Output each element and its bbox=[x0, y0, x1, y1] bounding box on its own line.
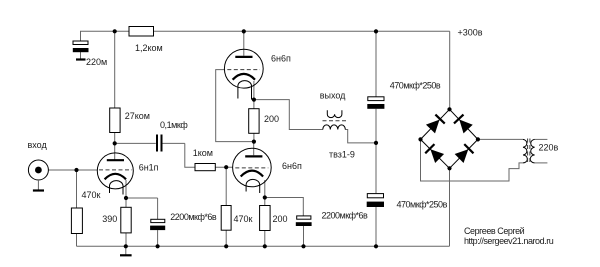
svg-text:27ком: 27ком bbox=[125, 111, 150, 121]
svg-text:твз1-9: твз1-9 bbox=[329, 150, 355, 160]
svg-text:200: 200 bbox=[273, 214, 288, 224]
svg-text:2200мкф*6в: 2200мкф*6в bbox=[322, 211, 369, 221]
svg-text:вход: вход bbox=[28, 140, 48, 150]
svg-text:470мкф*250в: 470мкф*250в bbox=[397, 200, 448, 210]
svg-text:470к: 470к bbox=[82, 190, 101, 200]
svg-text:470к: 470к bbox=[234, 214, 253, 224]
svg-text:1ком: 1ком bbox=[193, 148, 213, 158]
svg-text:6н6п: 6н6п bbox=[282, 161, 302, 171]
svg-text:6н1п: 6н1п bbox=[139, 163, 159, 173]
svg-text:http://sergeev21.narod.ru: http://sergeev21.narod.ru bbox=[464, 236, 554, 246]
svg-text:220м: 220м bbox=[86, 57, 107, 67]
svg-text:6н6п: 6н6п bbox=[271, 54, 291, 64]
svg-text:выход: выход bbox=[320, 91, 346, 101]
svg-text:200: 200 bbox=[264, 114, 279, 124]
svg-text:0,1мкф: 0,1мкф bbox=[160, 120, 188, 130]
svg-text:470мкф*250в: 470мкф*250в bbox=[390, 81, 441, 91]
svg-text:390: 390 bbox=[102, 214, 117, 224]
svg-text:+300в: +300в bbox=[458, 28, 483, 38]
svg-text:1,2ком: 1,2ком bbox=[135, 43, 163, 53]
svg-text:2200мкф*6в: 2200мкф*6в bbox=[170, 212, 217, 222]
svg-text:220в: 220в bbox=[539, 143, 559, 153]
svg-text:Сергеев Сергей: Сергеев Сергей bbox=[464, 226, 525, 236]
